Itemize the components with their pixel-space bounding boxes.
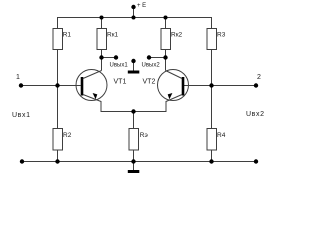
svg-text:R3: R3 — [217, 31, 226, 38]
wire R1 top stub — [57, 17, 59, 29]
svg-text:+ E: + E — [137, 3, 146, 9]
wire base 2 — [184, 85, 256, 87]
node terminal 2 — [254, 83, 258, 87]
svg-text:Uвых2: Uвых2 — [142, 63, 161, 69]
transistor VT2 — [158, 70, 189, 102]
svg-text:Uвх1: Uвх1 — [12, 112, 31, 119]
node +E terminal — [131, 5, 135, 9]
resistor Rk2 — [161, 29, 171, 50]
wire Re bottom stub — [133, 150, 135, 162]
junction bottom rail x Re — [131, 159, 135, 163]
resistor R2 — [53, 129, 63, 151]
wire Re top stub — [133, 112, 135, 129]
svg-text:Rэ: Rэ — [140, 132, 149, 139]
svg-text:R4: R4 — [217, 132, 226, 139]
wire R4 bottom stub — [211, 150, 213, 162]
junction bottom rail x R4 — [209, 159, 213, 163]
svg-text:VT2: VT2 — [143, 79, 156, 86]
junction emitter x Re — [131, 109, 135, 113]
junction VT1 collector node — [99, 55, 103, 59]
wire +E terminal stub — [133, 7, 135, 18]
resistor Re — [129, 129, 139, 151]
resistor R4 — [207, 129, 217, 151]
resistor R3 — [207, 29, 217, 50]
wire VT1 collector — [101, 50, 103, 71]
wire top supply rail — [58, 17, 212, 19]
svg-text:R2: R2 — [63, 132, 72, 139]
svg-text:1: 1 — [16, 74, 20, 81]
wire bottom ground stub — [133, 162, 135, 171]
wire Uvyh1 probe stub — [102, 57, 117, 59]
svg-text:2: 2 — [257, 74, 261, 81]
wire Rk1 top stub — [101, 18, 103, 29]
node terminal 1 — [19, 83, 23, 87]
wire base 1 — [21, 85, 81, 87]
wire bottom rail — [22, 161, 256, 163]
node Uvyh2 probe — [147, 55, 151, 59]
wire Uvyh2 probe stub — [149, 57, 166, 59]
junction bottom rail x R2 — [55, 159, 59, 163]
wire common emitter join — [101, 111, 167, 113]
wire left divider column — [57, 50, 59, 129]
node output common — [131, 59, 135, 63]
junction base1 x divider — [55, 83, 59, 87]
svg-text:VT1: VT1 — [114, 79, 127, 86]
node bottom rail left end — [20, 159, 24, 163]
junction base2 x divider — [209, 83, 213, 87]
node bottom rail right end — [254, 159, 258, 163]
wire VT2 emitter vertical — [165, 101, 167, 112]
resistor Rk1 — [97, 29, 107, 50]
junction rail x Rk2 — [164, 16, 168, 20]
junction rail x Rk1 — [100, 16, 104, 20]
ground output common bar — [128, 71, 140, 74]
svg-text:Uвых1: Uвых1 — [110, 63, 129, 69]
svg-text:Rк1: Rк1 — [107, 31, 119, 38]
wire R2 bottom stub — [57, 150, 59, 162]
wire R3 top stub — [211, 17, 213, 29]
transistor VT1 — [76, 70, 107, 102]
wire output common ground stub — [133, 61, 135, 71]
svg-text:R1: R1 — [63, 31, 72, 38]
wire VT1 emitter vertical — [100, 101, 102, 112]
wire Rk2 top stub — [165, 18, 167, 29]
junction VT2 collector node — [163, 55, 167, 59]
wire VT2 collector — [165, 50, 167, 71]
svg-text:Uвх2: Uвх2 — [246, 111, 265, 118]
wire right divider column — [211, 50, 213, 129]
junction rail x +E stub — [132, 16, 136, 20]
resistor R1 — [53, 29, 63, 50]
ground bottom bar — [128, 170, 140, 173]
svg-text:Rк2: Rк2 — [171, 31, 183, 38]
node Uvyh1 probe — [114, 55, 118, 59]
